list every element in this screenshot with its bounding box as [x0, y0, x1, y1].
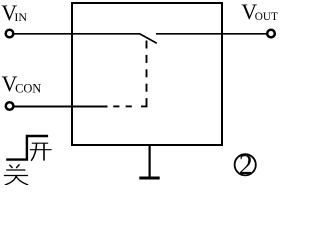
label VCON: [2, 71, 42, 96]
terminal VIN: [6, 30, 14, 38]
switch S blade (open): [140, 34, 157, 43]
figure number circle 2: [235, 150, 256, 181]
svg-text:CON: CON: [15, 81, 41, 95]
switch function box U1: [72, 3, 222, 145]
svg-text:IN: IN: [14, 10, 27, 24]
svg-text:OUT: OUT: [255, 11, 278, 23]
control waveform step (off->on): [6, 136, 48, 160]
dashed control line to switch: [113, 41, 146, 107]
svg-text:2: 2: [239, 150, 253, 181]
ground: [139, 177, 159, 180]
label VOUT: [241, 0, 278, 24]
ground stem wire: [149, 146, 151, 177]
terminal VCON: [6, 102, 14, 110]
wire VOUT output rail: [156, 33, 268, 35]
label 关 (off) glyph: [4, 164, 28, 185]
label 开 (on) glyph: [30, 143, 52, 161]
wire VCON control: [14, 106, 108, 108]
label VIN: [1, 0, 27, 25]
terminal VOUT: [267, 30, 275, 38]
wire VIN input rail: [13, 33, 140, 35]
